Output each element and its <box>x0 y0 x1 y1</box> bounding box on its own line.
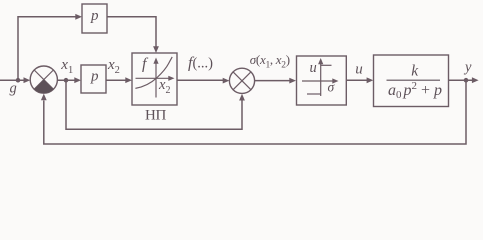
wire summator to p2 <box>57 79 75 81</box>
relay upper level <box>321 64 332 66</box>
arrowhead into multiplier left <box>223 78 230 84</box>
wire p2 to NP <box>106 79 126 81</box>
svg-text:f(...): f(...) <box>188 54 213 71</box>
summing junction <box>30 66 57 93</box>
arrowhead into NP top <box>153 46 159 53</box>
arrowhead into NP left <box>125 77 132 83</box>
svg-text:x2: x2 <box>107 57 120 76</box>
arrowhead into summator bottom <box>41 94 47 101</box>
wire plant to output y <box>449 79 473 81</box>
relay vertical axis <box>320 63 322 96</box>
nonlinear block NP <box>132 53 177 105</box>
svg-text:a0p2 + p: a0p2 + p <box>388 80 442 101</box>
svg-text:p: p <box>90 68 99 84</box>
relay lower level <box>307 93 321 95</box>
node y <box>464 78 469 83</box>
node input branch <box>16 78 21 83</box>
relay block <box>297 56 347 105</box>
wire branch up from input node to p1 <box>18 17 76 80</box>
node x1 <box>64 78 69 83</box>
wire NP to multiplier <box>177 79 224 81</box>
NP horizontal axis <box>136 77 171 79</box>
relay horizontal axis <box>302 80 334 82</box>
NP cubic curve <box>135 57 172 89</box>
wire g input <box>0 79 24 81</box>
block p2 <box>81 65 106 93</box>
wire inner feedback x1 to multiplier <box>66 80 242 129</box>
arrowhead into p2 <box>74 77 81 83</box>
plant block k/(a0 p^2 + p) <box>374 55 449 107</box>
block p1 <box>82 4 107 33</box>
NP vertical axis <box>155 63 157 98</box>
multiplier <box>229 68 254 93</box>
arrowhead into p1 <box>75 14 82 20</box>
svg-text:σ(x1, x2): σ(x1, x2) <box>250 52 290 70</box>
svg-text:g: g <box>10 81 17 97</box>
wire relay to plant <box>346 79 367 81</box>
wire p1 output to NP top <box>107 17 156 48</box>
svg-text:u: u <box>355 62 363 78</box>
arrowhead into plant left <box>367 77 374 83</box>
svg-text:НП: НП <box>145 108 167 124</box>
svg-text:u: u <box>310 60 317 76</box>
arrowhead into summator left <box>24 77 31 83</box>
svg-text:k: k <box>411 62 419 79</box>
arrowhead into multiplier bottom <box>239 94 245 101</box>
arrowhead output y <box>472 77 479 83</box>
svg-text:x1: x1 <box>60 57 73 76</box>
wire outer feedback y to summator <box>44 80 466 144</box>
svg-text:f: f <box>142 55 149 72</box>
wire multiplier to relay <box>255 80 290 82</box>
arrowhead into relay left <box>289 78 296 84</box>
svg-text:y: y <box>463 59 472 75</box>
svg-text:p: p <box>90 8 99 24</box>
fraction bar <box>387 79 441 81</box>
